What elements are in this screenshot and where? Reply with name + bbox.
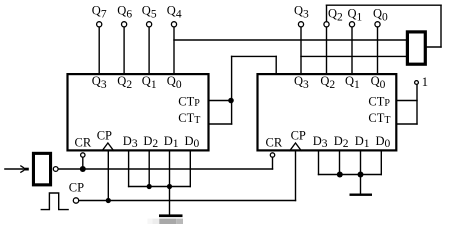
node Q1 terminal — [349, 22, 354, 27]
wire U1 D3 pin — [128, 152, 130, 187]
wire U2 CTT pin — [397, 123, 418, 125]
U2 CR active-low bubble — [270, 153, 274, 157]
wire Q7 terminal to U1 Q3 pin — [98, 24, 100, 73]
counter U2 (right 4-bit counter) — [258, 74, 397, 150]
wire Q4 terminal to U1 Q0 pin — [173, 24, 175, 73]
wire U2 CR vertical — [272, 155, 274, 169]
wire Q1 terminal to U2 Q1 pin — [351, 24, 353, 73]
wire Q4 to AND gate input 1 — [174, 39, 407, 41]
wire U1 D bar to ground — [169, 187, 171, 216]
wire U2 CTP pin — [397, 100, 418, 102]
wire U1 D0 pin — [189, 152, 191, 187]
junction CP line at U1 — [106, 198, 111, 203]
wire Q6 terminal to U1 Q2 pin — [123, 24, 125, 73]
ground right — [350, 194, 373, 196]
wire U1 carry to U2 horizontal — [232, 55, 277, 57]
wire U1 CTP pin — [210, 100, 232, 102]
junction U2 D2 on bar — [337, 172, 343, 178]
wire U2 D bar to ground — [360, 175, 362, 194]
wire U1 D bus bar — [129, 186, 191, 188]
wire AND output feedback vertical at Q2 — [326, 5, 328, 24]
junction U2 D1 on bar — [358, 172, 364, 178]
svg-text:CR: CR — [75, 136, 92, 150]
wire U2 CP vertical — [295, 152, 297, 201]
junction U1 D2 on bar — [147, 184, 152, 189]
wire AND output feedback right vertical — [440, 5, 442, 47]
node CP input terminal — [73, 198, 78, 203]
ground left — [159, 214, 183, 217]
wire AND output feedback top — [327, 4, 442, 6]
wire U2 D0 pin — [380, 152, 382, 175]
wire U2 D bus bar — [319, 174, 382, 176]
wire U2 D3 pin — [318, 152, 320, 175]
svg-text:CP: CP — [291, 129, 306, 143]
node Q5 terminal — [147, 22, 152, 27]
node Q7 terminal — [97, 22, 102, 27]
svg-text:CP: CP — [69, 181, 84, 195]
wire U1 D1 pin — [169, 152, 171, 187]
U1 CP edge triangle — [102, 143, 114, 151]
wire Q0 terminal to U2 Q0 pin — [377, 24, 379, 73]
inverter G1 — [33, 153, 50, 185]
svg-text:CR: CR — [266, 136, 283, 150]
wire CP horizontal line — [76, 200, 296, 202]
node Q3 terminal — [298, 22, 303, 27]
node Q2 terminal — [324, 22, 329, 27]
wire Q2 terminal to U2 Q2 pin — [326, 24, 328, 73]
inverter output bubble — [53, 167, 58, 172]
wire U1 carry drop to U2 top — [275, 56, 277, 74]
node Q0 terminal — [375, 22, 380, 27]
junction U1 CTP tie — [228, 98, 234, 104]
svg-text:1: 1 — [422, 75, 428, 89]
wire U1 CR vertical — [82, 155, 84, 169]
node Q4 terminal — [171, 22, 176, 27]
wire U1 D2 pin — [148, 152, 150, 187]
wire inverter output to CR line — [58, 168, 272, 170]
wire inverter input — [5, 168, 25, 170]
U2 CP edge triangle — [289, 143, 301, 151]
junction U1 D1 on bar — [167, 184, 172, 189]
wire logic-1 terminal to U2 CTP CTT — [416, 83, 418, 125]
wire U1 CTT pin — [210, 123, 232, 125]
node Q6 terminal — [122, 22, 127, 27]
junction CR line at U1 — [80, 166, 86, 172]
wire U2 D2 pin — [339, 152, 341, 175]
wire Q3 terminal to U2 Q3 pin — [300, 24, 302, 73]
wire U1 CTP-CTT tie vertical — [231, 56, 233, 124]
U1 CR active-low bubble — [81, 153, 85, 157]
wire U1 CP vertical — [107, 152, 109, 201]
inverter input arrowhead — [20, 166, 24, 173]
wire AND gate output — [426, 46, 442, 48]
svg-text:CP: CP — [97, 129, 112, 143]
wire Q5 terminal to U1 Q1 pin — [148, 24, 150, 73]
AND gate G2 — [407, 32, 425, 64]
counter U1 (left 4-bit counter) — [68, 74, 209, 150]
wire Q3 to AND gate input 2 — [301, 55, 407, 57]
node logic-1 terminal — [415, 81, 419, 85]
wire U2 D1 pin — [360, 152, 362, 175]
CP pulse symbol — [41, 193, 69, 210]
